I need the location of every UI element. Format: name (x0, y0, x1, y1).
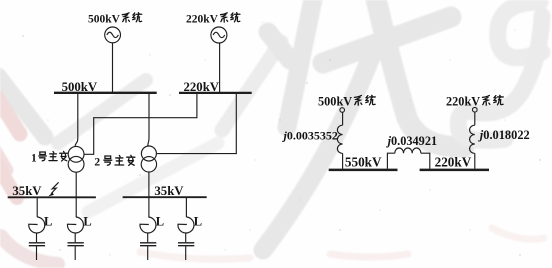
svg-text:35kV: 35kV (154, 184, 184, 198)
bus 500kV (54, 92, 157, 94)
load branch 4: load symbol (178, 217, 194, 233)
bus 220kV (equivalent circuit) (420, 169, 489, 172)
svg-text:220kV: 220kV (184, 80, 220, 94)
load branch 4: wire (185, 198, 187, 217)
load branch 3: wire to capacitor (147, 233, 149, 242)
bus 550kV (329, 169, 398, 172)
wire G2 to 220kV bus (219, 43, 221, 92)
wire 500kV bus to T1 (75, 94, 78, 147)
wire X3 to 220kV bus (474, 153, 476, 168)
terminal node (500kV system) (340, 108, 345, 113)
transformer T2 winding 2 (141, 157, 156, 172)
svg-text:1: 1 (31, 153, 37, 165)
load branch 4: wire below capacitor (185, 246, 187, 260)
watermark gray hook stroke of big char (374, 0, 464, 147)
reactor X3 (j0.018022) (470, 125, 475, 153)
load branch 1: wire to capacitor (36, 233, 38, 242)
watermark gray band right of 220kV bus (222, 42, 281, 130)
watermark gray loop of right glyph (498, 2, 542, 58)
transformer T1 (1号主变) winding 1 (68, 146, 84, 162)
sine wave in G1 (107, 32, 119, 37)
load branch 4: capacitor plates (178, 242, 194, 244)
watermark pink band left edge lower (0, 163, 17, 198)
bus 220kV (179, 92, 252, 94)
wire G1 to 500kV bus (112, 43, 114, 92)
svg-text:220kV: 220kV (435, 155, 472, 170)
watermark pink band left edge mid (0, 150, 8, 170)
load branch 3: wire below capacitor (147, 246, 149, 260)
load branch 1: load symbol (29, 217, 45, 233)
generator G1 (500kV system source) (105, 27, 121, 43)
watermark faint pink marks bottom (140, 252, 250, 259)
svg-text:500kV: 500kV (88, 13, 121, 25)
load branch 2: wire to capacitor (74, 233, 76, 242)
wire 550kV bus to reactor X2 (387, 153, 394, 169)
svg-text:L: L (44, 214, 52, 228)
watermark gray band top-left corner (0, 76, 45, 137)
load branch 3: wire (148, 198, 150, 217)
watermark gray dot stroke of big char (268, 32, 290, 60)
svg-text:500kV: 500kV (318, 95, 352, 109)
generator G2 (220kV system source) (211, 27, 227, 43)
transformer T1 winding 2 (68, 156, 84, 172)
wire terminal to reactor X1 (342, 112, 344, 125)
svg-text:j0.0035352: j0.0035352 (282, 128, 338, 142)
load branch 2: capacitor plates (68, 242, 84, 244)
watermark gray falling leg of big char (263, 44, 376, 250)
svg-text:35kV: 35kV (12, 184, 42, 198)
wire 220kV bus to T2 (157, 94, 237, 154)
bus 35kV right (123, 196, 207, 198)
sine wave in G2 (213, 32, 225, 37)
svg-text:500kV: 500kV (62, 80, 98, 94)
wire X2 to 220kV bus (421, 153, 430, 169)
wire terminal to reactor X3 (474, 112, 476, 125)
svg-text:L: L (156, 214, 164, 228)
load branch 3: capacitor plates (140, 242, 156, 244)
terminal node (220kV system) (473, 107, 478, 112)
wire T1 to left 35kV bus (75, 172, 77, 197)
svg-text:L: L (194, 214, 202, 228)
watermark gray vertical stroke of big char (287, 0, 314, 127)
svg-text:220kV: 220kV (446, 95, 480, 109)
wire 220kV bus to T1 (jog) (84, 94, 197, 154)
svg-text:j0.018022: j0.018022 (478, 128, 530, 142)
load branch 2: load symbol (67, 217, 83, 233)
watermark gray long horizontal stroke of big char (323, 17, 451, 63)
wire T2 to right 35kV bus (148, 172, 150, 197)
svg-text:L: L (83, 214, 91, 228)
wire 500kV bus to T2 (148, 94, 149, 146)
svg-text:550kV: 550kV (345, 155, 382, 170)
reactor X2 (j0.034921) (395, 148, 421, 153)
wire X1 to 550kV bus (342, 153, 344, 168)
load branch 2: wire (75, 198, 77, 217)
watermark gray band mid-left faint (88, 143, 218, 212)
transformer T2 (2号主变) winding 1 (141, 146, 156, 161)
svg-text:j0.034921: j0.034921 (386, 134, 438, 148)
bus 35kV left (8, 196, 96, 198)
load branch 4: wire to capacitor (185, 233, 187, 242)
load branch 1: capacitor plates (29, 242, 45, 244)
load branch 1: wire (36, 198, 38, 217)
watermark bottom-left pink curve (1, 236, 58, 264)
svg-text:2: 2 (94, 156, 100, 168)
svg-text:220kV: 220kV (186, 13, 219, 25)
load branch 3: load symbol (140, 217, 156, 233)
watermark pink band left edge upper (0, 96, 20, 134)
load branch 1: wire below capacitor (36, 246, 38, 260)
watermark gray stem of right glyph (458, 16, 542, 140)
load branch 2: wire below capacitor (74, 246, 76, 260)
reactor X1 (j0.0035352) (337, 125, 342, 153)
fault lightning arrow (51, 182, 58, 193)
watermark gray band behind 500kV label (58, 80, 146, 143)
